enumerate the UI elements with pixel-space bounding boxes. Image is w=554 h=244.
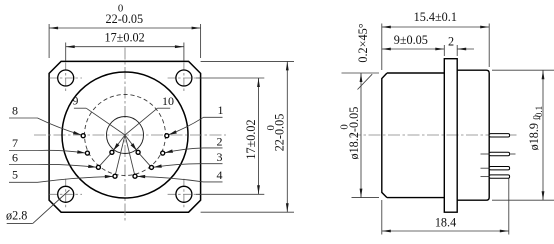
chamfer extension line horizontal bbox=[342, 72, 380, 74]
mounting hole top-right bbox=[176, 70, 192, 86]
leader from label 9 to center bbox=[74, 107, 86, 109]
contact pin 7 bbox=[85, 151, 89, 155]
side view pin row 3 shaft line bbox=[481, 167, 490, 169]
dimension 22 right: extension lines bbox=[201, 60, 294, 62]
svg-text:2: 2 bbox=[217, 135, 223, 149]
radial line from center to pin 4 bbox=[125, 135, 135, 174]
inner boss circle bbox=[107, 117, 144, 154]
mounting hole bottom-left bbox=[58, 186, 74, 202]
svg-text:ø2.8: ø2.8 bbox=[6, 208, 27, 222]
dimension 18.4: extension lines bbox=[381, 200, 383, 235]
dimension 15.4: dimension line bbox=[382, 26, 489, 28]
dimension 17 top: dimension line bbox=[66, 46, 184, 48]
contact pin 8 bbox=[81, 134, 85, 138]
svg-text:-0.1: -0.1 bbox=[534, 106, 544, 120]
svg-text:0: 0 bbox=[265, 125, 277, 130]
side view pin row 2 bbox=[489, 152, 509, 155]
leader to pin 4 bbox=[137, 176, 222, 182]
svg-text:2: 2 bbox=[448, 35, 454, 49]
svg-text:10: 10 bbox=[162, 94, 174, 108]
svg-text:7: 7 bbox=[12, 136, 18, 150]
dimension 22 right: dimension line bbox=[286, 61, 288, 212]
contact pin 6 bbox=[96, 165, 100, 169]
side view pin row 4 bbox=[489, 175, 509, 178]
side view front body outline bbox=[382, 73, 445, 198]
arrowhead at pin 10 bbox=[131, 143, 137, 151]
mounting hole bottom-right centerlines bbox=[168, 193, 201, 195]
leader from label 10 to center bbox=[157, 107, 170, 109]
dimension ø18.9: extension lines bbox=[492, 69, 554, 71]
leader to pin 3 bbox=[154, 164, 223, 168]
side view mounting flange plate bbox=[444, 59, 457, 213]
arrowhead at pin 9 bbox=[113, 143, 119, 151]
svg-text:0: 0 bbox=[339, 124, 351, 129]
side view pin row 1 bbox=[489, 134, 509, 137]
dimension 18.4: dimension line bbox=[382, 230, 509, 232]
mounting hole top-left centerlines bbox=[49, 77, 82, 79]
dimension 9: dimension line bbox=[382, 48, 445, 50]
front view square flange outline bbox=[49, 61, 201, 212]
mounting hole top-left bbox=[58, 70, 74, 86]
front view vertical centerline bbox=[124, 48, 126, 223]
side view pin row 3 bbox=[489, 167, 509, 170]
dimension 22 top: extension lines bbox=[48, 24, 50, 58]
side view rear shell bbox=[457, 70, 489, 200]
radial leader from center through pin 10 to pin 3 bbox=[125, 135, 138, 152]
mounting hole bottom-left centerlines bbox=[49, 193, 82, 195]
dimension 9: extension lines bbox=[443, 45, 445, 56]
dimension 22 top: dimension line bbox=[49, 27, 201, 29]
svg-text:0.2×45°: 0.2×45° bbox=[356, 23, 370, 62]
dimension 2: dimension line right part bbox=[457, 48, 474, 50]
svg-text:9: 9 bbox=[72, 94, 78, 108]
svg-text:6: 6 bbox=[12, 151, 18, 165]
chamfer note text 0.2x45 bbox=[356, 23, 370, 62]
chamfer extension line diagonal bbox=[358, 74, 373, 89]
leader to pin 8 bbox=[9, 118, 81, 135]
svg-text:22-0.05: 22-0.05 bbox=[273, 114, 287, 152]
contact pin 4 bbox=[133, 174, 137, 178]
pin pitch circle (dashed) bbox=[85, 95, 166, 176]
svg-text:1: 1 bbox=[218, 103, 224, 117]
svg-text:17±0.02: 17±0.02 bbox=[104, 31, 144, 45]
contact pin 2 bbox=[161, 151, 165, 155]
side view pin row 4 shaft line bbox=[481, 176, 490, 178]
contact pin 1 bbox=[165, 134, 169, 138]
contact pin 5 bbox=[113, 174, 117, 178]
dimension 17 right: text bbox=[244, 119, 258, 159]
svg-text:17±0.02: 17±0.02 bbox=[244, 119, 258, 159]
hole diameter callout leader bbox=[7, 222, 33, 224]
side view pin row 2 tail bbox=[510, 153, 516, 155]
dimension ø18.9: dimension line bbox=[542, 70, 544, 200]
mounting hole top-right centerlines bbox=[168, 77, 201, 79]
contact pin 10 bbox=[136, 150, 140, 154]
dimension ø18.2: extension line bottom bbox=[352, 197, 380, 199]
leader to pin 5 bbox=[9, 176, 113, 182]
svg-text:22-0.05: 22-0.05 bbox=[106, 12, 144, 26]
svg-text:18.4: 18.4 bbox=[435, 216, 456, 230]
svg-text:9±0.05: 9±0.05 bbox=[394, 33, 428, 47]
svg-text:0: 0 bbox=[118, 3, 123, 15]
dimension 17 top: extension lines bbox=[65, 43, 67, 62]
leader to pin 1 bbox=[169, 117, 223, 134]
svg-text:5: 5 bbox=[12, 168, 18, 182]
leader to pin 6 bbox=[9, 164, 96, 167]
svg-text:4: 4 bbox=[217, 168, 223, 182]
dimension 22 right: text bbox=[265, 114, 287, 152]
leader to pin 7 bbox=[9, 150, 85, 153]
leader to pin 2 bbox=[165, 148, 223, 153]
dimension 17 right: extension lines bbox=[196, 77, 264, 79]
svg-text:ø18.9: ø18.9 bbox=[527, 123, 541, 150]
radial leader from center through pin 9 to pin 6 bbox=[112, 135, 125, 152]
dimension 15.4: extension lines bbox=[381, 24, 383, 71]
dimension ø18.2: text bbox=[339, 107, 361, 160]
side view horizontal centerline bbox=[349, 134, 517, 136]
contact pin 3 bbox=[150, 165, 154, 169]
front view horizontal centerline bbox=[34, 134, 226, 136]
svg-text:8: 8 bbox=[12, 103, 18, 117]
svg-text:3: 3 bbox=[217, 150, 223, 164]
radial line from center to pin 5 bbox=[116, 135, 126, 174]
connector body circle bbox=[62, 72, 188, 198]
svg-text:15.4±0.1: 15.4±0.1 bbox=[414, 10, 457, 24]
svg-text:ø18.2-0.05: ø18.2-0.05 bbox=[347, 107, 361, 160]
contact pin 9 bbox=[110, 150, 114, 154]
side view pin row 2 shaft line bbox=[481, 153, 490, 155]
dimension ø18.9: text bbox=[527, 106, 544, 151]
dimension 17 right: dimension line bbox=[258, 78, 260, 194]
dimension ø18.2: dimension line bbox=[360, 73, 362, 198]
mounting hole bottom-right bbox=[176, 186, 192, 202]
